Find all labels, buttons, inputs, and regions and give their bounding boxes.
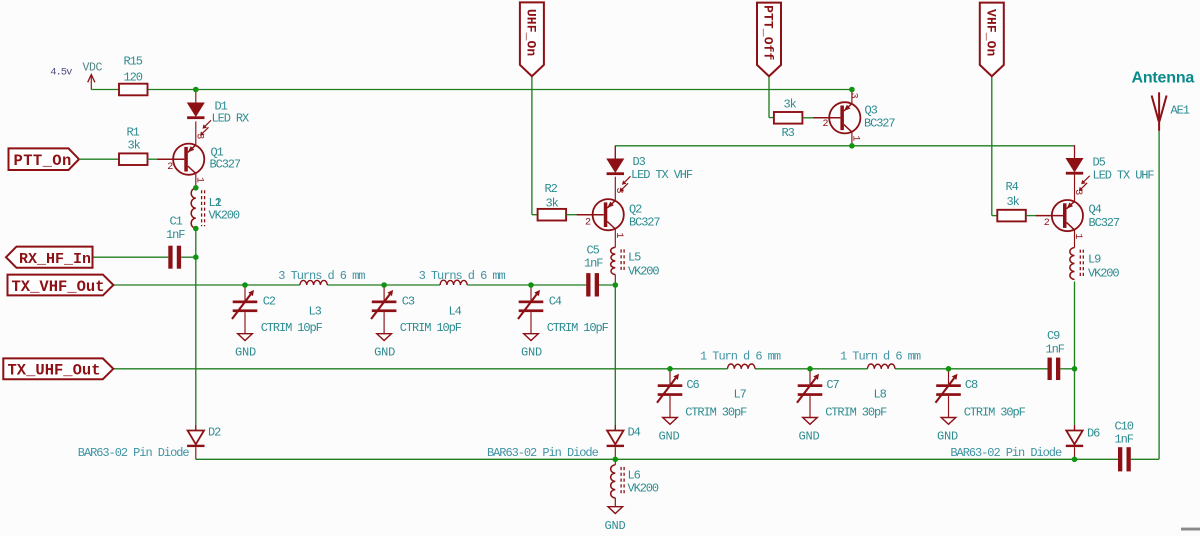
svg-text:Q2: Q2 [629,203,642,217]
svg-text:C3: C3 [402,295,415,309]
svg-text:GND: GND [937,430,958,444]
svg-text:PTT_On: PTT_On [14,152,72,170]
svg-text:1: 1 [613,232,624,238]
svg-text:L4: L4 [449,305,462,319]
svg-text:D6: D6 [1087,427,1100,441]
svg-text:3k: 3k [546,197,559,211]
svg-text:1nF: 1nF [1115,433,1134,447]
svg-text:Q3: Q3 [865,104,878,118]
svg-text:VHF_On: VHF_On [984,9,999,57]
svg-text:TX_VHF_Out: TX_VHF_Out [12,278,105,296]
svg-text:R2: R2 [545,182,558,196]
svg-text:R3: R3 [782,126,795,140]
svg-text:GND: GND [374,346,395,360]
svg-text:C4: C4 [549,295,562,309]
svg-text:3k: 3k [1007,195,1020,209]
svg-text:1 Turn d 6 mm: 1 Turn d 6 mm [840,350,921,364]
svg-text:GND: GND [521,346,542,360]
svg-text:1 Turn d 6 mm: 1 Turn d 6 mm [700,350,781,364]
svg-text:CTRIM 10pF: CTRIM 10pF [400,321,462,335]
svg-text:D2: D2 [208,426,221,440]
svg-text:D3: D3 [633,155,646,169]
svg-text:L7: L7 [734,388,747,402]
svg-text:VK200: VK200 [209,208,240,222]
svg-text:L6: L6 [628,469,641,483]
svg-text:LED TX VHF: LED TX VHF [631,168,693,182]
svg-text:VK200: VK200 [628,265,659,279]
svg-text:LED TX UHF: LED TX UHF [1093,169,1155,183]
svg-text:D4: D4 [628,426,641,440]
svg-text:RX_HF_In: RX_HF_In [19,251,91,268]
svg-text:3: 3 [848,93,859,99]
svg-text:BC327: BC327 [629,216,660,230]
svg-text:TX_UHF_Out: TX_UHF_Out [8,362,101,380]
svg-text:BC327: BC327 [864,117,895,131]
svg-text:CTRIM 30pF: CTRIM 30pF [964,406,1026,420]
svg-text:Q4: Q4 [1089,203,1102,217]
svg-text:L9: L9 [1088,253,1101,267]
svg-text:R4: R4 [1006,180,1019,194]
svg-text:3k: 3k [784,98,797,112]
svg-text:C5: C5 [587,244,600,258]
svg-text:L3: L3 [309,305,322,319]
svg-text:3 Turns d 6 mm: 3 Turns d 6 mm [419,269,506,283]
svg-text:BAR63-02 Pin Diode: BAR63-02 Pin Diode [950,446,1062,460]
svg-text:4.5v: 4.5v [50,67,72,79]
svg-text:CTRIM 10pF: CTRIM 10pF [547,321,609,335]
svg-text:3 Turns d 6 mm: 3 Turns d 6 mm [278,269,365,283]
svg-text:C10: C10 [1115,420,1134,434]
svg-text:VK200: VK200 [1088,267,1119,281]
svg-text:BAR63-02 Pin Diode: BAR63-02 Pin Diode [78,446,190,460]
svg-text:UHF_On: UHF_On [524,9,539,57]
svg-text:R15: R15 [124,55,143,69]
svg-text:R1: R1 [127,126,140,140]
svg-text:BC327: BC327 [1089,216,1120,230]
svg-text:PTT_Off: PTT_Off [761,5,776,60]
svg-text:LED RX: LED RX [212,112,250,126]
svg-text:AE1: AE1 [1171,104,1190,118]
svg-text:Antenna: Antenna [1132,70,1195,87]
svg-text:L8: L8 [874,388,887,402]
svg-text:3k: 3k [128,139,141,153]
svg-text:BC327: BC327 [210,158,241,172]
svg-text:L5: L5 [628,251,641,265]
svg-text:CTRIM 30pF: CTRIM 30pF [685,406,747,420]
svg-text:GND: GND [235,346,256,360]
svg-text:1nF: 1nF [1046,343,1065,357]
svg-text:GND: GND [659,430,680,444]
svg-text:C9: C9 [1047,329,1060,343]
svg-text:120: 120 [124,71,143,85]
svg-text:GND: GND [799,430,820,444]
svg-text:CTRIM 10pF: CTRIM 10pF [261,321,323,335]
svg-text:C6: C6 [686,378,699,392]
svg-text:1nF: 1nF [584,257,603,271]
svg-text:C7: C7 [826,378,839,392]
svg-text:1: 1 [850,135,861,141]
svg-text:1nF: 1nF [166,228,185,242]
svg-text:VDC: VDC [83,62,103,75]
svg-text:C2: C2 [263,295,276,309]
svg-text:1: 1 [194,177,205,183]
svg-text:VK200: VK200 [628,482,659,496]
svg-text:D5: D5 [1093,156,1106,170]
svg-text:GND: GND [605,519,626,533]
svg-text:C8: C8 [965,378,978,392]
svg-text:C1: C1 [170,215,183,229]
svg-text:CTRIM 30pF: CTRIM 30pF [825,406,887,420]
svg-text:BAR63-02 Pin Diode: BAR63-02 Pin Diode [487,446,599,460]
svg-text:1: 1 [1072,233,1083,239]
